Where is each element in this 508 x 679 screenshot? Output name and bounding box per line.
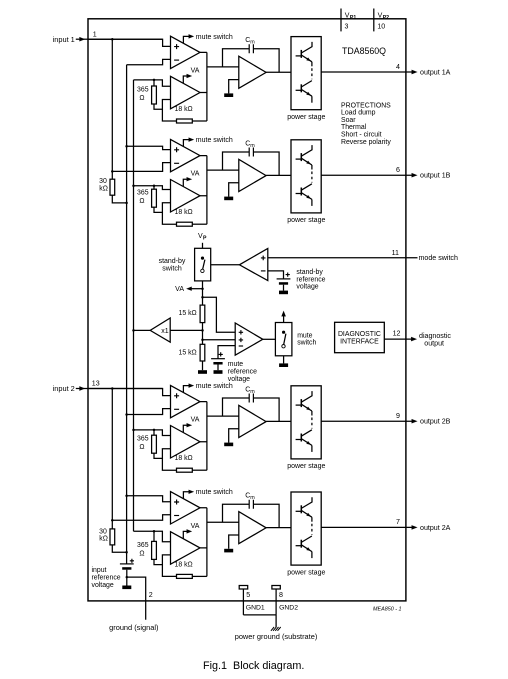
op-amp driver stage 1A [239,56,266,88]
op-amp driver stage 1B [239,159,266,191]
svg-text:input: input [92,567,107,574]
wire [127,409,171,415]
VA supply arrow 2A [183,531,189,538]
svg-text:15 kΩ: 15 kΩ [179,310,197,317]
svg-text:PROTECTIONS: PROTECTIONS [341,102,391,109]
capacitor Cm 2B [223,398,250,416]
op-amp VA feedback amplifier 2B [171,426,201,459]
wire [134,430,171,436]
svg-text:GND1: GND1 [246,604,265,611]
svg-text:3: 3 [345,23,349,30]
wire [207,415,239,417]
svg-text:INTERFACE: INTERFACE [340,339,379,346]
svg-text:365: 365 [137,87,149,94]
svg-text:input 2: input 2 [53,384,75,393]
wire [112,545,126,552]
svg-text:Reverse polarity: Reverse polarity [341,139,391,146]
wire [127,496,171,502]
svg-text:P2: P2 [383,15,389,21]
svg-text:input 1: input 1 [53,35,75,44]
svg-text:DIAGNOSTIC: DIAGNOSTIC [338,331,381,338]
svg-text:8: 8 [279,591,283,599]
wire [218,346,235,359]
wire [134,80,171,86]
VA net tap arrow [189,288,203,290]
power stage 1A [291,37,321,110]
ground (divider) [202,361,204,370]
wire [88,389,171,396]
svg-text:P1: P1 [350,15,356,21]
svg-text:voltage: voltage [92,582,114,589]
resistor 365 ohm 2B [153,430,155,435]
svg-text:kΩ: kΩ [99,536,108,543]
capacitor Cm 1B [223,152,250,170]
wire [266,420,291,422]
capacitor Cm 2A [223,504,250,522]
svg-text:365: 365 [137,542,149,549]
pin 12 diagnostic output line [384,338,411,340]
svg-text:output 1A: output 1A [420,68,451,76]
svg-text:reference: reference [92,574,121,581]
svg-text:power ground (substrate): power ground (substrate) [235,632,318,641]
ground (driver reference) 2A [229,535,239,549]
op-amp x1 buffer [150,318,170,342]
op-amp VA feedback amplifier 1A [171,76,201,109]
svg-text:mute: mute [228,361,243,368]
svg-text:P: P [203,235,207,241]
svg-text:output: output [424,340,444,348]
svg-text:Ω: Ω [139,95,144,102]
svg-text:VA: VA [191,171,200,178]
svg-text:mute: mute [297,333,312,340]
svg-text:VA: VA [175,286,184,293]
svg-text:power stage: power stage [287,217,325,224]
ground (mute switch) [283,356,285,364]
svg-text:MEA850 - 1: MEA850 - 1 [373,606,401,612]
svg-text:Ω: Ω [139,444,144,451]
svg-text:18 kΩ: 18 kΩ [175,106,193,113]
ground (driver reference) 2B [229,429,239,443]
svg-text:m: m [250,143,255,149]
svg-text:Ω: Ω [139,550,144,557]
wire [268,271,284,279]
svg-text:x1: x1 [161,328,169,335]
svg-text:m: m [250,389,255,395]
resistor 15 kOhm lower [200,344,205,361]
mute switch control arrow 2A [183,492,191,499]
svg-text:power stage: power stage [287,463,325,470]
mute switch control arrow 1B [183,140,191,147]
ground (stand-by reference) [283,285,285,291]
wire [203,297,236,332]
wire [202,243,204,249]
wire (bus B vertical) [126,65,128,553]
wire [154,203,171,213]
wire (reference bus C vertical) [133,80,135,531]
svg-text:mute switch: mute switch [196,383,233,390]
wire [266,527,291,529]
VA supply arrow 1B [183,179,189,186]
wire [112,515,170,520]
svg-text:11: 11 [392,249,399,257]
svg-text:10: 10 [377,23,385,30]
diagnostic interface block [335,322,385,352]
mute switch [275,323,292,356]
svg-text:Short - circuit: Short - circuit [341,132,382,139]
outer boundary box of TDA8560Q [88,19,406,601]
ground (input reference) [126,570,128,586]
wire [200,52,207,121]
svg-text:12: 12 [393,329,401,337]
wire [200,402,207,471]
wire [202,323,204,345]
capacitor Cm 1A [223,49,250,67]
svg-text:output 1B: output 1B [420,172,451,180]
svg-text:TDA8560Q: TDA8560Q [342,46,386,56]
svg-text:output 2A: output 2A [420,524,451,532]
resistor 18 kOhm 1B [162,212,176,224]
svg-text:18 kΩ: 18 kΩ [175,561,193,568]
battery input reference voltage [126,552,128,564]
pin 2 ground signal line [127,577,146,620]
resistor 18 kOhm 2B [162,458,176,470]
wire [170,329,202,331]
wire [88,39,171,46]
svg-text:5: 5 [246,591,250,599]
wire [134,329,151,331]
wire (input 1 bus A) [111,39,113,179]
power stage 2A [291,492,321,565]
ground (mute reference) [217,365,219,371]
svg-text:output 2B: output 2B [420,418,451,426]
battery mute reference voltage [211,358,225,360]
svg-text:6: 6 [396,166,400,174]
wire [127,59,171,64]
svg-text:power stage: power stage [287,114,325,121]
mute switch output arrow up [283,313,285,323]
svg-text:GND2: GND2 [279,604,298,611]
power stage 1B [291,140,321,213]
junction 1B minus to bus A [111,170,114,173]
wire [243,615,276,627]
resistor 30 kOhm channel 2 [110,529,115,545]
svg-text:VA: VA [191,523,200,530]
mute switch control arrow 2B [183,386,191,393]
wire [154,449,171,459]
output 2B pin line [321,420,412,422]
GND2 terminal [272,586,280,590]
resistor 365 ohm 1A [153,80,155,86]
svg-text:365: 365 [137,436,149,443]
svg-text:Fig.1 Block diagram.: Fig.1 Block diagram. [203,660,304,672]
pin 10 VP2 supply line [373,9,375,32]
resistor 15 kOhm upper [200,305,205,323]
battery stand-by reference voltage [277,278,291,280]
svg-text:reference: reference [228,368,257,375]
svg-text:Ω: Ω [139,198,144,205]
svg-text:2: 2 [149,591,153,599]
ground (driver reference) 1B [229,183,239,197]
svg-text:m: m [250,40,255,46]
svg-text:voltage: voltage [228,376,250,383]
wire [207,66,239,68]
svg-text:30: 30 [99,178,107,185]
GND1 terminal [239,586,248,590]
op-amp driver stage 2A [239,512,266,544]
wire [112,163,170,172]
op-amp mute comparator [235,323,263,355]
svg-text:15 kΩ: 15 kΩ [179,349,197,356]
op-amp VA feedback amplifier 1B [171,180,201,213]
wire [211,264,240,266]
wire [207,521,239,523]
output 1A pin line [321,71,412,73]
op-amp 2B main amplifier [171,385,201,417]
output 2A pin line [321,526,412,528]
output 1B pin line [321,174,412,176]
svg-text:VA: VA [191,417,200,424]
svg-text:18 kΩ: 18 kΩ [175,455,193,462]
svg-text:4: 4 [396,63,400,71]
wire [202,281,204,305]
pin 3 VP1 supply line [340,9,342,32]
resistor 365 ohm 2A [153,531,155,541]
svg-text:mute switch: mute switch [196,137,233,144]
wire [207,169,239,171]
pin 11 mode switch line [268,257,418,259]
svg-text:1: 1 [93,30,97,38]
op-amp VA feedback amplifier 2A [171,532,201,565]
resistor 18 kOhm 2A [162,565,176,577]
op-amp stand-by comparator [239,248,267,280]
svg-text:mode switch: mode switch [419,254,458,262]
wire [266,174,291,176]
svg-text:mute switch: mute switch [196,34,233,41]
svg-text:18 kΩ: 18 kΩ [175,209,193,216]
wire [134,186,171,190]
svg-text:switch: switch [297,340,316,347]
svg-text:Load dump: Load dump [341,110,376,117]
svg-text:kΩ: kΩ [99,186,108,193]
mute switch control arrow 1A [183,36,191,43]
svg-text:30: 30 [99,528,107,535]
wire [200,508,207,577]
wire [134,531,171,541]
svg-text:VA: VA [191,67,200,74]
resistor 30 kOhm channel 1 [110,179,115,195]
power stage 2B [291,386,321,459]
wire [127,146,171,149]
wire [203,339,236,341]
power ground (substrate) hatch symbol [271,627,281,631]
wire [263,338,276,340]
resistor 18 kOhm 1A [162,109,176,121]
svg-text:m: m [250,495,255,501]
svg-text:ground (signal): ground (signal) [109,623,158,632]
svg-text:reference: reference [296,276,325,283]
op-amp 2A main amplifier [171,492,201,524]
svg-text:13: 13 [92,380,100,388]
VA supply arrow 1A [183,76,189,83]
svg-text:power stage: power stage [287,569,325,576]
svg-text:stand-by: stand-by [159,258,186,265]
wire (input 2 bus A2) [111,389,113,529]
svg-text:9: 9 [396,412,400,420]
ground (driver reference) 1A [229,80,239,94]
VA supply arrow 2B [183,425,189,432]
wire [112,195,126,203]
resistor 365 ohm 1B [153,186,155,189]
wire [200,156,207,225]
svg-text:7: 7 [396,518,400,526]
op-amp driver stage 2B [239,405,266,437]
svg-text:Thermal: Thermal [341,124,367,131]
op-amp 1A main amplifier [171,36,201,68]
svg-text:365: 365 [137,190,149,197]
op-amp 1B main amplifier [171,139,201,171]
stand-by switch [195,248,211,281]
wire [154,555,171,565]
wire [266,71,291,73]
svg-text:voltage: voltage [296,284,318,291]
svg-text:mute switch: mute switch [196,489,233,496]
wire [154,100,171,110]
svg-text:stand-by: stand-by [296,269,323,276]
svg-text:switch: switch [162,265,182,272]
svg-text:Soar: Soar [341,117,356,124]
